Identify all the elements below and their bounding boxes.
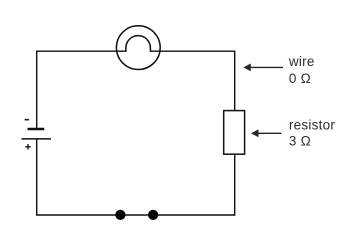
svg-text:3 Ω: 3 Ω: [289, 134, 311, 149]
battery B1 positive plate (long thin): [22, 138, 52, 140]
lamp L1 circle: [116, 26, 160, 70]
junction dot left: [115, 210, 125, 220]
junction dot right: [148, 210, 158, 220]
battery minus label: [25, 119, 29, 121]
wire top-right segment (lamp to resistor): [150, 51, 234, 110]
svg-text:0 Ω: 0 Ω: [289, 71, 311, 86]
annotation arrow to wire: [243, 64, 283, 72]
svg-text:wire: wire: [288, 54, 315, 69]
battery B1 negative plate (short thick): [28, 128, 45, 130]
wire top-left segment (battery top to lamp): [37, 51, 126, 128]
resistor R1 body: [224, 111, 245, 155]
wire bottom segment (resistor to battery): [37, 139, 235, 215]
svg-text:resistor: resistor: [289, 118, 336, 133]
battery plus label: [25, 144, 30, 149]
annotation arrow to resistor: [251, 129, 282, 137]
lamp L1 filament bump: [126, 36, 150, 52]
